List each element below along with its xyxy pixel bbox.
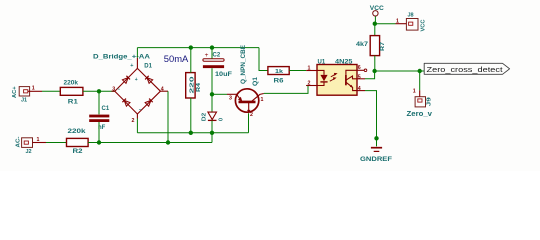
resistor R2 <box>67 129 89 155</box>
wire DC minus rail <box>137 132 248 134</box>
connector J1 <box>12 85 42 103</box>
wire collector to opto pin2 <box>264 86 308 94</box>
svg-text:1: 1 <box>261 97 264 103</box>
wire VCC to J8 <box>375 23 396 25</box>
connector J8 <box>396 12 427 31</box>
wire top rail <box>137 47 259 49</box>
svg-text:+: + <box>130 63 133 69</box>
wire emitter riser <box>248 113 250 133</box>
svg-text:J8: J8 <box>408 12 414 18</box>
svg-text:1: 1 <box>37 137 40 143</box>
resistor R4 <box>186 73 203 98</box>
svg-text:220k: 220k <box>64 80 79 86</box>
resistor R1 <box>60 80 83 105</box>
node A junction <box>97 89 101 93</box>
svg-text:3: 3 <box>229 95 232 101</box>
resistor R6 <box>268 67 289 85</box>
svg-text:AC-: AC- <box>15 136 21 147</box>
wire base <box>212 93 227 95</box>
junction D2 bottom <box>210 131 214 135</box>
svg-text:C1: C1 <box>102 106 110 112</box>
svg-text:2: 2 <box>132 118 135 124</box>
svg-text:1k: 1k <box>275 69 284 75</box>
svg-text:D_Bridge_+-AA: D_Bridge_+-AA <box>93 54 151 60</box>
svg-text:4: 4 <box>161 87 164 93</box>
wire R4 top <box>190 48 192 73</box>
svg-text:C2: C2 <box>213 53 221 59</box>
svg-text:Zero_v: Zero_v <box>407 111 433 118</box>
svg-text:220k: 220k <box>68 129 87 135</box>
wire J1 to R1 <box>42 90 60 92</box>
svg-text:0: 0 <box>218 118 224 121</box>
junction C1 bottom <box>97 140 101 144</box>
svg-text:D1: D1 <box>144 63 152 69</box>
svg-text:R4: R4 <box>196 82 202 92</box>
transistor Q1 <box>227 45 264 118</box>
svg-text:50mA: 50mA <box>164 54 189 64</box>
connector J2 <box>15 136 46 154</box>
optocoupler U1 4N25 <box>306 59 367 95</box>
svg-text:1: 1 <box>413 88 416 94</box>
svg-text:220: 220 <box>190 76 196 93</box>
wire AC2 rail <box>88 142 212 144</box>
power VCC <box>370 6 385 24</box>
diode D2 <box>202 112 225 121</box>
svg-text:D2: D2 <box>202 113 208 122</box>
capacitor C2 <box>203 52 232 78</box>
wire bridge pin4 drop <box>167 91 169 142</box>
svg-text:R6: R6 <box>274 78 285 84</box>
svg-text:1: 1 <box>396 18 399 24</box>
wire C1 to AC2 rail <box>98 122 100 143</box>
svg-text:1: 1 <box>32 85 35 91</box>
wire output row <box>375 70 424 72</box>
connector J9 <box>407 88 433 118</box>
svg-text:4N25: 4N25 <box>335 59 353 65</box>
svg-text:4: 4 <box>358 86 361 92</box>
svg-text:AC+: AC+ <box>12 87 18 99</box>
svg-text:Q1: Q1 <box>253 76 259 86</box>
wire bridge plus to top rail <box>136 48 138 58</box>
junction C2 top <box>210 45 214 49</box>
junction R4 bottom <box>189 131 193 135</box>
ground GNDREF <box>360 148 392 164</box>
wire pin4 to ground <box>365 91 377 147</box>
svg-text:2: 2 <box>250 112 253 118</box>
junction VCC <box>373 22 377 26</box>
svg-text:4k7: 4k7 <box>356 42 369 48</box>
wire R1 to bridge <box>83 90 115 92</box>
wire pin5 riser <box>365 71 375 79</box>
svg-text:U1: U1 <box>318 59 326 65</box>
wire AC2 rail up-link <box>211 133 213 143</box>
svg-text:J2: J2 <box>26 149 32 155</box>
svg-text:1: 1 <box>308 65 311 71</box>
svg-text:+: + <box>135 77 138 83</box>
svg-text:J9: J9 <box>427 97 433 106</box>
svg-text:3: 3 <box>112 87 115 93</box>
bridge rectifier D1 <box>93 54 168 124</box>
svg-text:~: ~ <box>139 108 142 114</box>
svg-text:5: 5 <box>358 74 361 80</box>
wire C2 bottom to base node <box>211 68 213 112</box>
resistor R7 <box>356 36 386 56</box>
junction output right <box>418 69 422 73</box>
junction bridge pin4 drop <box>166 140 170 144</box>
wire R4 bottom <box>190 98 192 133</box>
wire J2 to R2 <box>46 142 67 144</box>
junction output left <box>372 69 376 73</box>
wire node A down to C1 <box>98 91 100 114</box>
svg-text:VCC: VCC <box>420 19 426 31</box>
junction above ground <box>374 136 378 140</box>
svg-text:R2: R2 <box>73 149 84 155</box>
svg-text:2: 2 <box>308 81 311 87</box>
wire D2 bottom <box>211 121 213 133</box>
global label Zero_cross_detect <box>424 63 509 74</box>
junction R4 top <box>189 45 193 49</box>
capacitor C1 <box>89 106 110 131</box>
svg-text:+: + <box>205 52 209 59</box>
wire C2 top <box>211 48 213 59</box>
svg-text:R1: R1 <box>68 99 79 105</box>
wire VCC to R7 <box>374 24 376 36</box>
wire R6 to opto pin1 <box>289 70 306 72</box>
wire top rail down to R6 <box>259 48 268 71</box>
wire bridge pin2 drop <box>136 119 138 133</box>
junction base node <box>210 92 214 96</box>
svg-text:J1: J1 <box>21 97 27 103</box>
svg-text:R7: R7 <box>380 42 386 51</box>
svg-text:~: ~ <box>117 87 120 93</box>
svg-text:10uF: 10uF <box>215 72 232 78</box>
svg-text:6: 6 <box>358 65 361 71</box>
wire R7 bottom <box>374 56 376 71</box>
svg-text:GNDREF: GNDREF <box>360 156 392 163</box>
svg-text:Q_NPN_CBE: Q_NPN_CBE <box>241 45 247 84</box>
wire junction to J9 <box>419 71 421 90</box>
svg-text:Zero_cross_detect: Zero_cross_detect <box>427 65 504 74</box>
